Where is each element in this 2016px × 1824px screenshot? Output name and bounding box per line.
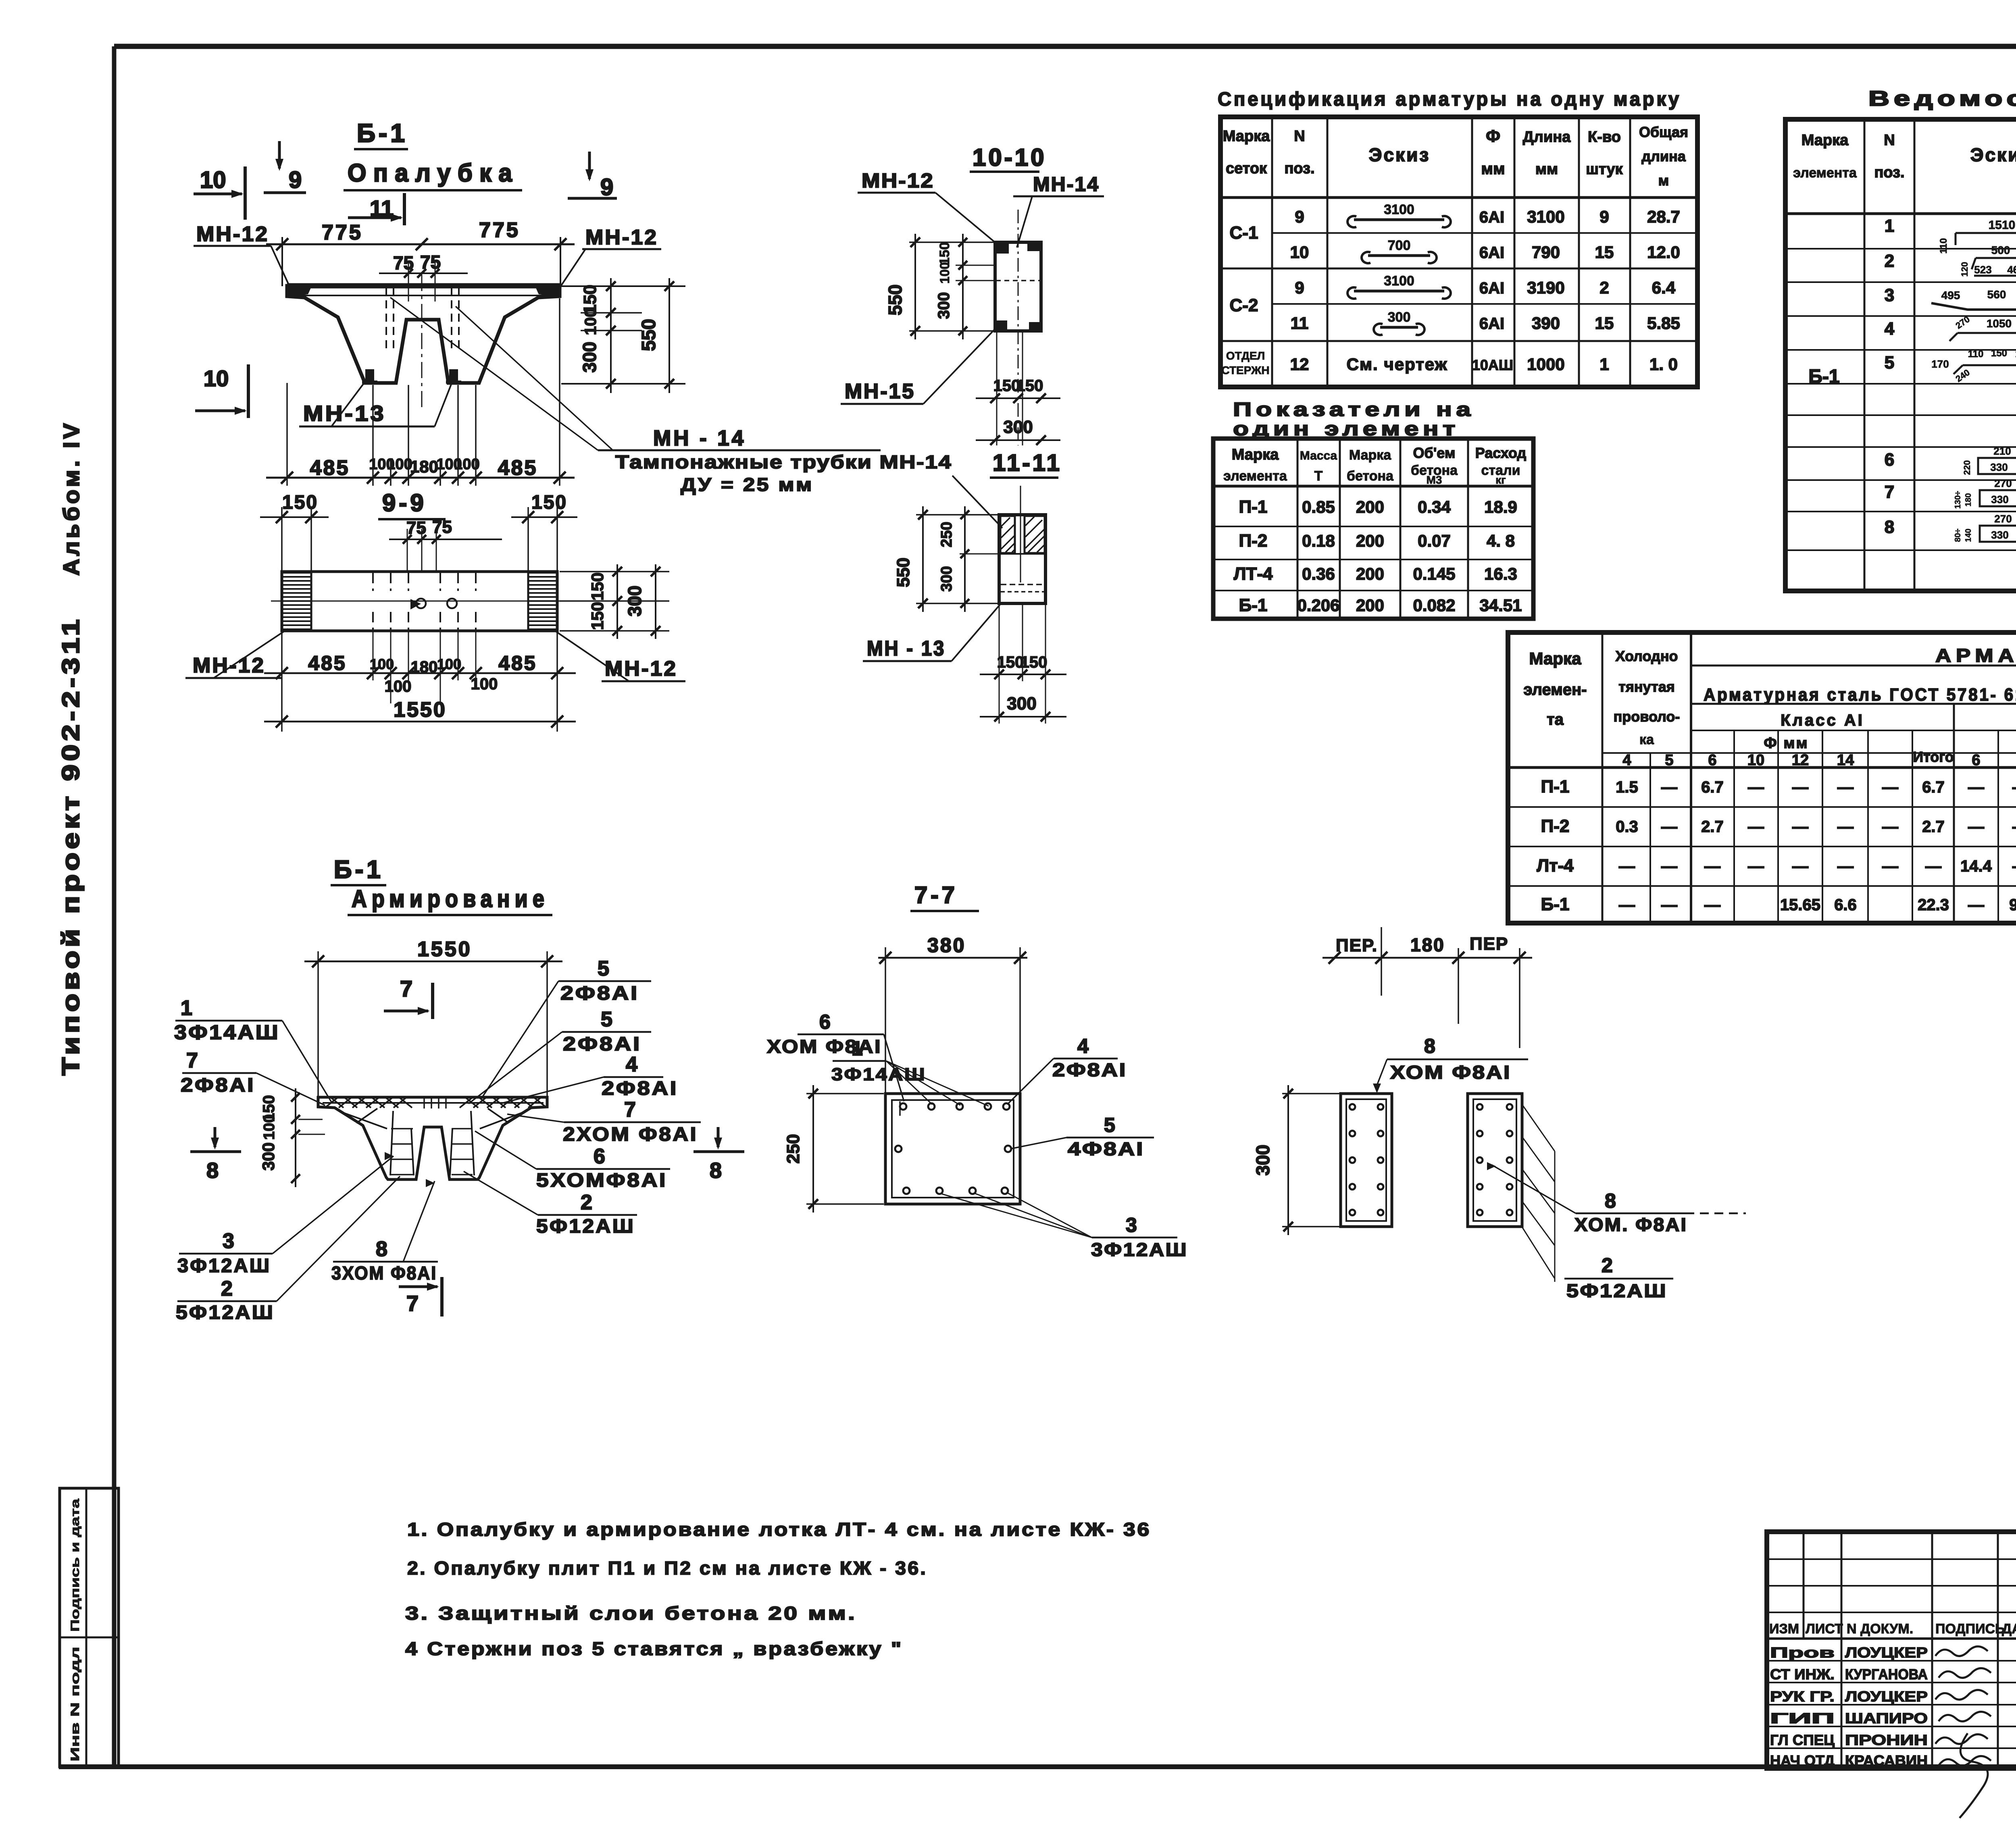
svg-text:4: 4 (1077, 1035, 1089, 1057)
black mark bottom-left (МН-15) (996, 320, 1007, 330)
svg-text:15: 15 (1595, 314, 1614, 333)
svg-text:460: 460 (2007, 264, 2016, 276)
flange cross-hatch right zone (460, 1098, 472, 1108)
svg-text:Пров: Пров (1770, 1644, 1835, 1661)
extension lines below 10-10 (996, 332, 998, 445)
8-8 left rectangle outline (1341, 1094, 1392, 1227)
svg-text:330: 330 (1991, 493, 2008, 505)
7-7 inner stirrup rectangle (892, 1100, 1014, 1198)
svg-text:485: 485 (498, 456, 538, 480)
svg-text:Марка: Марка (1529, 649, 1582, 668)
svg-text:300: 300 (1252, 1145, 1273, 1176)
svg-text:Об'ем: Об'ем (1413, 445, 1456, 461)
svg-text:3Ф12АШ: 3Ф12АШ (1091, 1239, 1188, 1260)
pointer wedge at left tube hole (410, 599, 421, 609)
svg-text:150: 150 (997, 653, 1024, 671)
embedded plate mark МН-13 right stem foot (449, 369, 458, 382)
svg-text:560: 560 (1987, 288, 2006, 301)
svg-text:9: 9 (1295, 278, 1304, 297)
dashed lines near bottom of 11-11 (1001, 584, 1044, 585)
svg-text:3. Защитный слои бетона: 3. Защитный слои бетона 20 мм. (405, 1603, 857, 1624)
dimension 550 (10-10 outer) (914, 234, 916, 339)
dimensions 250/300 (11-11 inner) (916, 514, 998, 516)
svg-text:485: 485 (310, 456, 350, 480)
svg-text:1. Опалубку и армирование л: 1. Опалубку и армирование лотка ЛТ- 4 см… (407, 1519, 1151, 1540)
svg-text:длина: длина (1641, 148, 1686, 164)
svg-text:0.18: 0.18 (1302, 531, 1335, 550)
svg-text:300: 300 (1003, 417, 1033, 437)
svg-text:523: 523 (1974, 264, 1991, 276)
svg-text:5: 5 (601, 1008, 612, 1031)
dimensions 150/100/300 (10-10 left inner) (909, 241, 993, 243)
svg-text:0.206: 0.206 (1297, 596, 1339, 615)
svg-text:100: 100 (937, 262, 952, 283)
svg-text:КРАСАВИН: КРАСАВИН (1845, 1752, 1928, 1769)
svg-text:Лт-4: Лт-4 (1537, 856, 1574, 876)
svg-text:—: — (1661, 857, 1677, 875)
svg-text:—: — (1748, 778, 1764, 796)
svg-text:поз.: поз. (1284, 160, 1314, 177)
embedded plate mark МН-13 left stem foot (365, 369, 374, 382)
table grid: показатели (1213, 439, 1533, 619)
right-side dimensions 150/150 and 300 (9-9) (560, 571, 669, 572)
svg-text:4 Стержни поз 5 ставятся: 4 Стержни поз 5 ставятся „ вразбежку " (405, 1638, 903, 1659)
line under hatched blocks (999, 553, 1045, 555)
svg-text:4: 4 (1622, 752, 1631, 769)
svg-text:330: 330 (1990, 461, 2008, 473)
drawing frame border (114, 44, 2016, 49)
svg-text:М3: М3 (1427, 474, 1442, 486)
svg-text:2.7: 2.7 (1701, 818, 1724, 836)
hatched end plate left (МН-12) (283, 572, 310, 574)
svg-text:Арматурная сталь ГОСТ 5781-: Арматурная сталь ГОСТ 5781- 61 (1704, 685, 2016, 705)
svg-text:3190: 3190 (1527, 278, 1564, 297)
svg-text:6АI: 6АI (1479, 208, 1504, 226)
leader from МН-14 note to 11-11 (952, 476, 1002, 528)
svg-text:П-1: П-1 (1239, 497, 1268, 517)
svg-text:4. 8: 4. 8 (1487, 531, 1515, 550)
haunch reinforcement diagonals right (480, 1113, 523, 1129)
black corner mark top-right (1027, 243, 1040, 251)
svg-text:МН - 14: МН - 14 (653, 426, 746, 450)
svg-text:6АI: 6АI (1479, 279, 1504, 297)
svg-text:1: 1 (1885, 216, 1894, 236)
svg-text:—: — (1837, 857, 1854, 875)
svg-text:9.3: 9.3 (2009, 896, 2016, 914)
centre axis 11-11 (1020, 486, 1021, 582)
svg-text:ЛОУЦКЕР: ЛОУЦКЕР (1845, 1688, 1928, 1705)
svg-text:3Ф14АШ: 3Ф14АШ (831, 1065, 926, 1084)
svg-text:ЛИСТ: ЛИСТ (1806, 1621, 1843, 1637)
svg-text:100: 100 (582, 308, 600, 335)
svg-text:Альбом. IV: Альбом. IV (58, 420, 84, 576)
svg-text:700: 700 (1388, 238, 1411, 253)
svg-text:ХОМ. Ф8АI: ХОМ. Ф8АI (1574, 1214, 1687, 1235)
svg-text:12: 12 (1792, 752, 1809, 769)
svg-text:180: 180 (1964, 493, 1973, 506)
svg-text:300: 300 (624, 586, 645, 617)
svg-text:Итого: Итого (1913, 749, 1954, 765)
svg-text:РУК ГР.: РУК ГР. (1770, 1688, 1835, 1705)
svg-text:10-10: 10-10 (973, 144, 1046, 171)
svg-text:—: — (1837, 818, 1854, 836)
svg-text:СТЕРЖН: СТЕРЖН (1221, 364, 1269, 376)
svg-text:N ДОКУМ.: N ДОКУМ. (1847, 1621, 1913, 1637)
svg-text:АРМАТУРНЫЕ ИЗДЕЛИЯ: АРМАТУРНЫЕ ИЗДЕЛИЯ (1935, 645, 2016, 666)
7-7 square outline (885, 1094, 1020, 1204)
svg-text:2Ф8АI: 2Ф8АI (602, 1078, 678, 1099)
svg-text:—: — (2012, 778, 2016, 796)
svg-text:П-1: П-1 (1541, 777, 1570, 797)
svg-text:6: 6 (1885, 450, 1894, 470)
svg-text:14.4: 14.4 (1960, 857, 1992, 875)
svg-text:Спецификация арматуры на од: Спецификация арматуры на одну марку (1218, 89, 1681, 110)
svg-text:5: 5 (1104, 1114, 1115, 1136)
section mark 8 (left) (214, 1127, 217, 1147)
svg-text:НАЧ ОТД: НАЧ ОТД (1770, 1752, 1835, 1769)
svg-text:7-7: 7-7 (914, 882, 958, 908)
svg-text:—: — (1619, 857, 1635, 875)
svg-text:14: 14 (1837, 752, 1854, 769)
title block vertical lines (1803, 1532, 1805, 1639)
svg-text:140: 140 (1964, 528, 1973, 542)
svg-text:200: 200 (1356, 596, 1384, 615)
svg-text:3: 3 (1885, 285, 1894, 305)
svg-text:110: 110 (1938, 238, 1949, 254)
svg-text:—: — (2012, 857, 2016, 875)
hatched end plate right (МН-12) (529, 572, 556, 574)
svg-text:К-во: К-во (1588, 129, 1621, 146)
svg-text:300: 300 (579, 342, 600, 373)
svg-text:Эскиз: Эскиз (1970, 144, 2016, 165)
beam centre axis (421, 275, 423, 407)
svg-text:2: 2 (1599, 278, 1609, 297)
flange cross-hatch left zone (325, 1098, 337, 1108)
svg-text:МН - 13: МН - 13 (867, 637, 946, 660)
svg-text:—: — (1704, 896, 1720, 914)
svg-text:Марка: Марка (1223, 128, 1270, 145)
svg-text:550: 550 (893, 557, 913, 587)
svg-text:10: 10 (1747, 752, 1764, 769)
svg-text:9: 9 (600, 174, 613, 200)
svg-text:Б-1: Б-1 (1239, 595, 1268, 615)
svg-text:Марка: Марка (1232, 446, 1279, 463)
svg-text:550: 550 (638, 319, 660, 351)
svg-text:—: — (1748, 857, 1764, 875)
svg-text:П-2: П-2 (1239, 531, 1268, 551)
svg-text:485: 485 (308, 652, 346, 674)
svg-text:кг: кг (1495, 474, 1506, 486)
8-8 right inner stirrup (1473, 1099, 1516, 1221)
svg-text:Тампонажные трубки МН-14: Тампонажные трубки МН-14 (615, 451, 952, 472)
bar dots 8-8 left (1350, 1104, 1355, 1110)
8-8 left inner stirrup (1346, 1099, 1386, 1221)
svg-text:150: 150 (282, 492, 318, 513)
hatched block left (МН-14 tube) (1000, 516, 1015, 553)
extension lines below 11-11 (999, 605, 1000, 724)
svg-text:3Ф14АШ: 3Ф14АШ (174, 1021, 280, 1044)
svg-text:0.07: 0.07 (1418, 531, 1451, 550)
svg-text:18.9: 18.9 (1484, 497, 1517, 516)
svg-text:5: 5 (598, 957, 609, 980)
section mark 9 (left) (278, 141, 281, 168)
dimension 150/150 (10-10 bottom) (976, 397, 1060, 399)
svg-text:2.7: 2.7 (1922, 818, 1945, 836)
svg-text:150: 150 (588, 572, 607, 601)
title block outer box (1767, 1532, 2016, 1768)
svg-text:—: — (1882, 818, 1898, 836)
svg-text:2Ф8АI: 2Ф8АI (560, 983, 639, 1004)
svg-text:та: та (1547, 711, 1564, 728)
svg-text:1: 1 (181, 996, 192, 1020)
svg-text:Б-1: Б-1 (334, 856, 384, 884)
svg-text:2Ф8АI: 2Ф8АI (181, 1075, 255, 1096)
svg-text:9: 9 (1599, 207, 1609, 226)
dimension 550 (11-11 outer) (922, 506, 924, 612)
8-8 right rectangle outline (1468, 1094, 1522, 1227)
svg-text:4: 4 (626, 1053, 637, 1076)
section mark 9 (right) (588, 152, 591, 179)
svg-text:Расход: Расход (1475, 445, 1527, 461)
svg-text:16.3: 16.3 (1484, 564, 1517, 583)
svg-text:6АI: 6АI (1479, 244, 1504, 262)
tube МН-14 dashed lines (left) (385, 287, 387, 351)
right-side dimensions 150/100/300 and 550 (опалубка) (561, 285, 685, 287)
stirrups in flange middle (423, 1098, 425, 1109)
svg-text:790: 790 (1532, 243, 1560, 262)
svg-text:2: 2 (1602, 1254, 1613, 1277)
stirrup tick marks 7-7 (899, 1101, 901, 1116)
svg-text:80÷: 80÷ (1954, 528, 1962, 542)
svg-text:ГИП: ГИП (1770, 1710, 1835, 1726)
svg-text:270: 270 (1994, 513, 2012, 525)
svg-text:9: 9 (289, 167, 302, 193)
hatch lines right block (1025, 517, 1034, 526)
svg-text:10: 10 (204, 366, 229, 391)
svg-text:4: 4 (1885, 319, 1895, 339)
svg-text:9-9: 9-9 (382, 489, 427, 516)
svg-text:130÷: 130÷ (1954, 491, 1962, 509)
svg-text:300: 300 (938, 566, 955, 591)
svg-text:ДУ = 25 мм: ДУ = 25 мм (681, 474, 814, 495)
table grid: ведомость (1785, 119, 2016, 591)
svg-text:11-11: 11-11 (993, 450, 1062, 476)
svg-text:0.36: 0.36 (1302, 564, 1335, 583)
svg-text:7: 7 (400, 976, 412, 1001)
svg-text:300: 300 (259, 1142, 278, 1171)
beam Б-1 cross-section outline (reinforcement view) (318, 1097, 547, 1179)
svg-text:сеток: сеток (1226, 160, 1267, 177)
svg-text:12.0: 12.0 (1647, 243, 1680, 262)
svg-text:Б-1: Б-1 (1808, 366, 1839, 387)
svg-text:390: 390 (1532, 314, 1560, 333)
svg-text:200: 200 (1356, 497, 1384, 516)
svg-text:ГЛ СПЕЦ: ГЛ СПЕЦ (1770, 1732, 1835, 1748)
svg-text:поз.: поз. (1874, 164, 1904, 181)
svg-text:1550: 1550 (394, 698, 447, 722)
svg-text:15: 15 (1595, 243, 1614, 262)
svg-text:МН-14: МН-14 (1033, 173, 1100, 196)
bar dots 7-7 (900, 1103, 906, 1110)
svg-text:6: 6 (1972, 752, 1980, 769)
svg-text:ДАТА: ДАТА (2002, 1621, 2016, 1637)
svg-text:22.3: 22.3 (1918, 896, 1949, 914)
svg-text:100: 100 (261, 1114, 278, 1140)
svg-text:9: 9 (1295, 207, 1304, 226)
svg-text:220: 220 (1962, 460, 1972, 475)
svg-text:МН-12: МН-12 (605, 657, 677, 680)
svg-text:4Ф8АI: 4Ф8АI (1068, 1138, 1144, 1159)
svg-text:ПОДПИСЬ: ПОДПИСЬ (1935, 1621, 2005, 1637)
svg-text:Класс АI: Класс АI (1781, 711, 1864, 729)
svg-text:7: 7 (406, 1292, 419, 1316)
svg-text:180: 180 (411, 658, 438, 676)
svg-text:—: — (1968, 896, 1984, 914)
svg-text:15.65: 15.65 (1780, 896, 1820, 914)
svg-text:1000: 1000 (1527, 355, 1564, 374)
svg-text:150: 150 (1016, 377, 1043, 395)
left stem reinforcement ladder (390, 1111, 393, 1175)
svg-text:—: — (1619, 896, 1635, 914)
svg-text:ХОМ Ф8АI: ХОМ Ф8АI (767, 1036, 882, 1057)
embedded plate mark МН-12 left (black) (288, 287, 311, 297)
svg-text:1: 1 (852, 1037, 863, 1060)
svg-text:550: 550 (885, 285, 906, 316)
svg-text:6АI: 6АI (1479, 315, 1504, 333)
svg-text:6.6: 6.6 (1834, 896, 1857, 914)
hatched block right (1025, 516, 1045, 553)
svg-text:1. 0: 1. 0 (1649, 355, 1678, 374)
svg-text:Б-1: Б-1 (1541, 894, 1570, 914)
centre axis of 10-10 down to 11-11 (1018, 210, 1019, 445)
dimension 300 (11-11 bottom) (980, 716, 1066, 718)
svg-text:3100: 3100 (1384, 273, 1414, 289)
leader lines 8-8 right collector (1522, 1104, 1555, 1151)
svg-text:180: 180 (410, 457, 438, 476)
svg-text:2: 2 (221, 1277, 233, 1300)
svg-text:6.7: 6.7 (1701, 778, 1724, 796)
svg-text:0.145: 0.145 (1413, 564, 1455, 583)
svg-text:—: — (1748, 818, 1764, 836)
svg-text:28.7: 28.7 (1647, 207, 1680, 226)
svg-text:МН-12: МН-12 (193, 654, 265, 677)
svg-text:330: 330 (1991, 529, 2008, 541)
9-9 plan rectangle (282, 572, 557, 631)
top reinforcement line (323, 1102, 544, 1104)
svg-text:элемен-: элемен- (1523, 681, 1587, 699)
svg-text:ЛТ-4: ЛТ-4 (1234, 564, 1273, 584)
hatch lines left block (1001, 518, 1010, 526)
svg-text:1050: 1050 (1987, 317, 2012, 330)
beam Б-1 cross-section outline (formwork) (287, 286, 560, 383)
svg-text:1.5: 1.5 (1616, 778, 1638, 796)
dimension 300 (8-8 left) (1282, 1093, 1339, 1094)
dimension 300 (10-10 bottom) (976, 439, 1060, 441)
svg-text:8: 8 (206, 1158, 219, 1183)
svg-text:270: 270 (1994, 477, 2012, 489)
svg-text:100: 100 (385, 678, 412, 695)
svg-text:МН-12: МН-12 (862, 169, 934, 192)
svg-text:—: — (2012, 818, 2016, 836)
svg-text:5: 5 (1885, 353, 1894, 372)
svg-text:100: 100 (454, 456, 479, 473)
svg-text:300: 300 (935, 292, 953, 319)
9-9 centreline (271, 601, 568, 602)
svg-text:3100: 3100 (1527, 207, 1564, 226)
svg-text:проволо-: проволо- (1614, 708, 1680, 725)
svg-text:Ф: Ф (1486, 127, 1500, 146)
svg-text:11: 11 (1291, 314, 1308, 333)
svg-text:Эскиз: Эскиз (1369, 144, 1430, 165)
svg-text:100: 100 (437, 656, 461, 672)
tube МН-14 dashed lines (right) (451, 287, 452, 351)
svg-text:—: — (1968, 818, 1984, 836)
svg-text:8: 8 (376, 1237, 387, 1261)
svg-text:3: 3 (1126, 1214, 1137, 1236)
svg-text:ПЕР: ПЕР (1470, 934, 1508, 954)
svg-text:Марка: Марка (1801, 132, 1849, 149)
svg-text:0.85: 0.85 (1302, 497, 1335, 516)
svg-text:КУРГАНОВА: КУРГАНОВА (1845, 1666, 1928, 1683)
embedded plate mark МН-12 right (black) (535, 287, 558, 297)
svg-text:Б-1: Б-1 (357, 119, 408, 148)
svg-text:МН-12: МН-12 (196, 223, 269, 246)
svg-text:1510: 1510 (1989, 218, 2016, 232)
svg-text:8: 8 (1885, 517, 1894, 537)
svg-text:Армирование: Армирование (352, 885, 549, 912)
svg-text:ПРОНИН: ПРОНИН (1845, 1732, 1928, 1748)
svg-text:495: 495 (1941, 289, 1960, 302)
haunch reinforcement diagonals left (343, 1113, 387, 1129)
svg-text:150: 150 (1020, 653, 1048, 671)
svg-text:5.85: 5.85 (1647, 314, 1680, 333)
svg-text:150: 150 (937, 242, 952, 265)
svg-text:775: 775 (322, 221, 363, 244)
dimension chain 485/100/180/100/485 (9-9) (264, 672, 576, 674)
svg-text:1: 1 (1599, 355, 1609, 374)
svg-text:6: 6 (1708, 752, 1716, 769)
svg-text:СТ ИНЖ.: СТ ИНЖ. (1770, 1666, 1835, 1683)
svg-text:380: 380 (927, 934, 966, 957)
svg-text:ШАПИРО: ШАПИРО (1845, 1710, 1928, 1726)
right stem reinforcement ladder (450, 1129, 452, 1175)
svg-text:Общая: Общая (1639, 124, 1688, 140)
svg-text:8: 8 (1424, 1035, 1435, 1057)
svg-text:Показатели на: Показатели на (1233, 399, 1475, 420)
svg-text:0.34: 0.34 (1418, 497, 1451, 516)
svg-text:N: N (1884, 132, 1895, 149)
svg-text:210: 210 (1993, 445, 2011, 457)
svg-text:Ф мм: Ф мм (1764, 735, 1808, 752)
svg-text:—: — (1925, 857, 1941, 875)
svg-text:150: 150 (531, 492, 567, 513)
svg-text:200: 200 (1356, 531, 1384, 550)
svg-text:Подпись и дата: Подпись и дата (69, 1499, 82, 1632)
svg-text:Ведомость отдельных стерж: Ведомость отдельных стержней (1868, 87, 2016, 110)
svg-text:См. чертеж: См. чертеж (1347, 355, 1448, 374)
svg-text:8: 8 (1605, 1190, 1616, 1212)
table grid: спецификация арматуры (1220, 117, 1697, 387)
svg-text:тянутая: тянутая (1618, 678, 1675, 695)
svg-text:Холодно: Холодно (1615, 648, 1678, 664)
svg-text:100: 100 (471, 675, 498, 693)
signature squiggles (1935, 1646, 1988, 1656)
svg-text:—: — (1661, 896, 1677, 914)
svg-text:100: 100 (387, 456, 412, 473)
svg-text:75: 75 (406, 518, 426, 538)
dimension 150/150 (11-11 bottom) (980, 674, 1066, 675)
svg-text:Длина: Длина (1523, 129, 1571, 146)
